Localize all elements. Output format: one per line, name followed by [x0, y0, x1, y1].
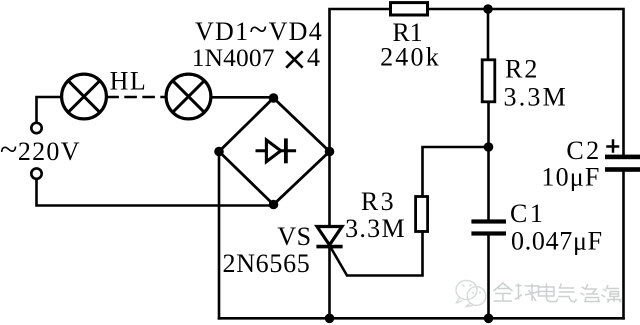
- svg-text:10μF: 10μF: [541, 163, 600, 192]
- plus sign of C2: [608, 141, 619, 152]
- resistor R2: [487, 9, 490, 60]
- watermark logo (speech bubbles): [456, 281, 486, 307]
- capacitor C2 (electrolytic): [605, 155, 640, 160]
- svg-text:VS: VS: [277, 222, 311, 251]
- svg-text:2N6565: 2N6565: [223, 249, 311, 278]
- svg-text:VD1~VD4: VD1~VD4: [195, 12, 323, 48]
- junction node: bridge bottom: [269, 200, 279, 210]
- svg-text:C1: C1: [510, 199, 545, 228]
- char 1: [494, 283, 513, 301]
- lamp HL2: [166, 74, 211, 119]
- svg-text:R2: R2: [505, 55, 539, 84]
- terminal T1 (AC input upper): [31, 123, 41, 133]
- junction node B (R2/C1/R3): [484, 142, 494, 152]
- thyristor VS: [328, 152, 331, 227]
- svg-text:4: 4: [307, 43, 320, 72]
- char 6: [602, 285, 622, 303]
- wire (dashed) between lamps: [108, 96, 164, 99]
- watermark text (6 CJK glyphs): [494, 283, 622, 303]
- svg-text:C2: C2: [566, 136, 601, 165]
- svg-text:HL: HL: [110, 67, 148, 96]
- wire bottom bus: [219, 317, 624, 320]
- char 4: [558, 284, 577, 303]
- wire node B to R3 top: [423, 147, 489, 197]
- svg-text:3.3M: 3.3M: [504, 83, 568, 112]
- diode symbol inside bridge: [257, 140, 295, 162]
- junction node: bridge left: [214, 147, 224, 157]
- resistor R3: [416, 197, 428, 232]
- wire main bus: bridge right vertex up to top rail: [330, 9, 390, 152]
- wire T1 to lamp HL1: [37, 97, 62, 123]
- terminal T2 (AC input lower): [31, 168, 41, 178]
- svg-text:1N4007: 1N4007: [192, 44, 275, 72]
- junction node: bridge top: [269, 93, 279, 103]
- wire R1 to node A: [429, 8, 488, 11]
- svg-text:3.3M: 3.3M: [345, 214, 406, 243]
- char 2: [515, 284, 540, 302]
- bridge rectifier VD1-VD4 diamond: [219, 98, 330, 205]
- wire node A to top-right corner: [488, 9, 624, 155]
- svg-text:0.047μF: 0.047μF: [511, 227, 603, 256]
- wire T2 to bridge bottom vertex: [37, 179, 274, 206]
- wire lamp HL2 to bridge top vertex: [212, 96, 274, 99]
- junction node: bridge right: [325, 147, 335, 157]
- char 3: [539, 284, 558, 302]
- capacitor C1: [487, 147, 490, 219]
- junction node: VS cathode on bottom bus: [325, 314, 335, 324]
- resistor R1: [391, 3, 428, 15]
- junction node A (top): [483, 4, 493, 14]
- svg-text:~220V: ~220V: [0, 131, 81, 167]
- lamp HL1: [62, 74, 107, 119]
- wire left DC bus down: [218, 152, 221, 319]
- wire R3 bottom to gate: [331, 232, 423, 276]
- svg-text:R3: R3: [361, 187, 396, 216]
- char 5: [581, 284, 601, 302]
- junction node: C1 on bottom bus: [484, 314, 494, 324]
- svg-text:240k: 240k: [380, 43, 441, 72]
